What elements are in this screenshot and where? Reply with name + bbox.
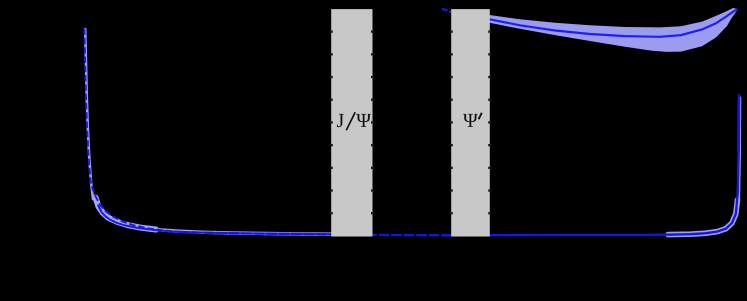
short dashed stub left of Psi-prime band top [442,9,455,13]
svg-text:Ψ: Ψ [463,110,478,132]
svg-text:Ψ: Ψ [356,110,371,132]
halo band along bottom-right bend and right-edge rise [668,200,738,235]
dotted border marks on J/Psi band edges [330,31,374,215]
dashed lower curve: steep descent and bend [84,29,178,232]
halo band along steep left dashed curve [85,29,93,199]
uncertainty band of upper-right curve [490,8,738,52]
halo band around lower-left bend and bottom (left of J/Psi band) [96,198,157,230]
solid lower curve, left segment (bend, runs under J/Psi band) [98,206,340,235]
gray band Psi-prime resonance [451,9,490,236]
central line of upper-right curve [490,10,737,37]
svg-text:J: J [337,110,345,132]
dashed lower curve: flat bottom continuing to Psi-prime band [179,232,489,236]
gray band J/Psi resonance [331,9,372,236]
dotted border marks on Psi-prime band edges [450,31,492,215]
solid lower curve, right segment (from Psi-prime band to right-edge rise) [452,95,740,235]
